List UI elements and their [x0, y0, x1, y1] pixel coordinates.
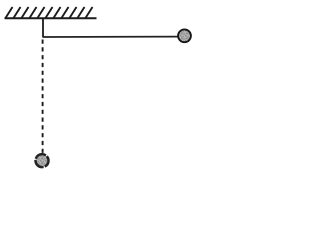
pivot support wire	[42, 18, 44, 38]
ceiling hatching	[6, 7, 93, 18]
bob at horizontal position	[178, 29, 191, 42]
bob at vertical position (dashed outline)	[36, 154, 49, 167]
ceiling baseline	[5, 17, 97, 19]
rod at horizontal position (solid)	[43, 36, 178, 38]
string at vertical position (dashed)	[42, 40, 44, 154]
